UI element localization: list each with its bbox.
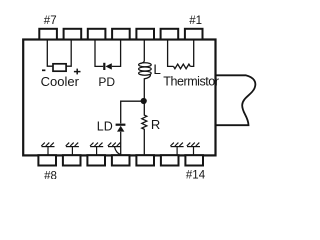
svg-text:L: L xyxy=(153,62,161,77)
wire node to LD branch xyxy=(121,101,145,123)
svg-text:Thermistor: Thermistor xyxy=(163,74,219,88)
pin tab #2 (top 6) xyxy=(161,29,179,40)
inductor L coils xyxy=(139,63,152,75)
ground on pin 14 xyxy=(187,143,200,155)
wire LD cathode to bottom edge (pin 11) xyxy=(120,132,122,155)
wire PD right (pin 4) xyxy=(112,40,121,66)
photodiode PD symbol xyxy=(104,63,112,70)
pin tab #3 (top 5) xyxy=(136,29,154,40)
pin tab #5 (top 3) xyxy=(88,29,106,40)
node junction dot xyxy=(141,98,147,104)
wire inductor bottom to node xyxy=(144,74,150,101)
svg-text:#8: #8 xyxy=(44,171,57,179)
wire thermistor left (pin 2) xyxy=(168,40,174,66)
cooler minus sign xyxy=(42,69,45,71)
cooler (TEC) box xyxy=(53,64,66,71)
pin tab #4 (top 4) xyxy=(112,29,130,40)
wire PD left (pin 5) xyxy=(95,40,103,66)
pin tab #7 (top 1) xyxy=(39,29,57,40)
ground on pin 8 xyxy=(41,143,54,155)
wire inductor top (pin 3) xyxy=(141,40,145,63)
pin tab #11 (bottom 4) xyxy=(112,155,130,165)
svg-text:Cooler: Cooler xyxy=(41,74,80,89)
pin tab #14 (bottom 7) xyxy=(185,155,203,165)
resistor R zigzag xyxy=(142,101,147,155)
pin tab #1 (top 7) xyxy=(185,29,203,40)
thermistor zigzag xyxy=(174,64,191,69)
svg-text:R: R xyxy=(151,117,160,132)
pin tab #13 (bottom 6) xyxy=(161,155,179,165)
cooler plus sign xyxy=(74,69,81,75)
ground on pin 10 xyxy=(90,143,103,155)
pin tab #10 (bottom 3) xyxy=(87,155,105,165)
wire thermistor right (pin 1) xyxy=(190,40,193,66)
svg-text:#1: #1 xyxy=(189,15,202,27)
ground on pin 9 xyxy=(66,143,79,155)
laser diode LD symbol xyxy=(116,125,126,132)
pin tab #12 (bottom 5) xyxy=(136,155,154,165)
wire cooler right (pin 6) xyxy=(66,40,71,66)
fiber pigtail stub xyxy=(216,75,256,125)
ground on pin 11 (LD cathode, curved stem) xyxy=(108,143,121,155)
svg-text:#7: #7 xyxy=(44,15,57,27)
svg-text:#14: #14 xyxy=(186,170,206,179)
wire cooler left (pin 7) xyxy=(47,40,53,66)
package body xyxy=(23,40,215,156)
svg-text:LD: LD xyxy=(97,119,113,133)
svg-text:PD: PD xyxy=(98,75,115,89)
pin tab #8 (bottom 1) xyxy=(38,155,56,165)
pin tab #9 (bottom 2) xyxy=(63,155,81,165)
pin tab #6 (top 2) xyxy=(64,29,82,40)
ground on pin 13 xyxy=(170,143,183,155)
